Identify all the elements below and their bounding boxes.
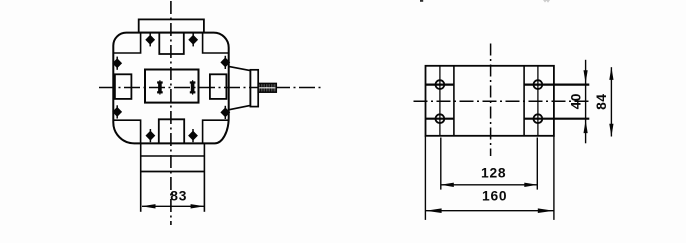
svg-text:128: 128	[481, 166, 506, 181]
svg-text:160: 160	[482, 189, 507, 204]
svg-text:83: 83	[170, 188, 187, 203]
svg-text:84: 84	[594, 94, 609, 110]
svg-text:40: 40	[568, 93, 583, 109]
